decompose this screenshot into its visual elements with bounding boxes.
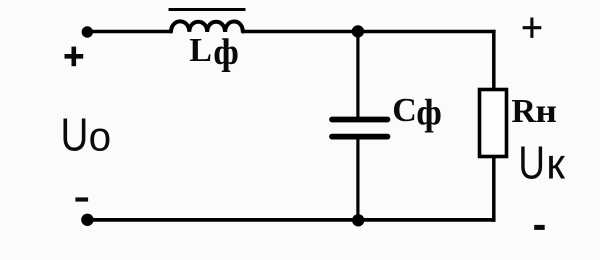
source label Uo [61, 109, 112, 160]
output label Uк [518, 136, 565, 188]
polarity minus left [75, 197, 88, 201]
wire top from junction A to right corner [358, 30, 496, 34]
inductor L1 core bar [169, 8, 246, 11]
capacitor C1 top plate [332, 117, 388, 123]
node A junction dot top [352, 25, 364, 37]
inductor label Lф [189, 32, 239, 73]
svg-text:R: R [511, 93, 536, 130]
svg-text:U: U [61, 109, 89, 160]
node B junction dot bottom [352, 214, 364, 226]
capacitor label Сф [392, 92, 442, 133]
svg-text:U: U [518, 136, 545, 188]
svg-text:o: o [89, 114, 112, 160]
wire bottom rail [87, 218, 496, 222]
capacitor C1 bottom plate [332, 134, 388, 140]
svg-text:н: н [535, 91, 557, 129]
resistor label Rн [511, 91, 557, 129]
svg-text:L: L [189, 32, 212, 69]
svg-text:ф: ф [213, 32, 239, 73]
wire top-left from input node to inductor [87, 30, 172, 34]
polarity plus left [65, 47, 84, 67]
wire capacitor branch lower [356, 138, 359, 220]
node input bottom terminal dot [81, 214, 93, 226]
wire right rail lower (resistor to bottom wire) [492, 156, 496, 222]
resistor R1 body [480, 90, 507, 157]
svg-text:ф: ф [416, 92, 442, 133]
svg-text:к: к [546, 140, 565, 188]
wire right rail upper (corner down to resistor) [492, 30, 496, 89]
inductor L1 winding [171, 21, 243, 32]
polarity plus right [523, 18, 542, 38]
node input top terminal dot [82, 26, 93, 37]
wire top from inductor to junction A [243, 30, 359, 34]
wire capacitor branch upper [356, 32, 359, 118]
polarity minus right [534, 225, 545, 230]
svg-text:С: С [392, 92, 417, 129]
